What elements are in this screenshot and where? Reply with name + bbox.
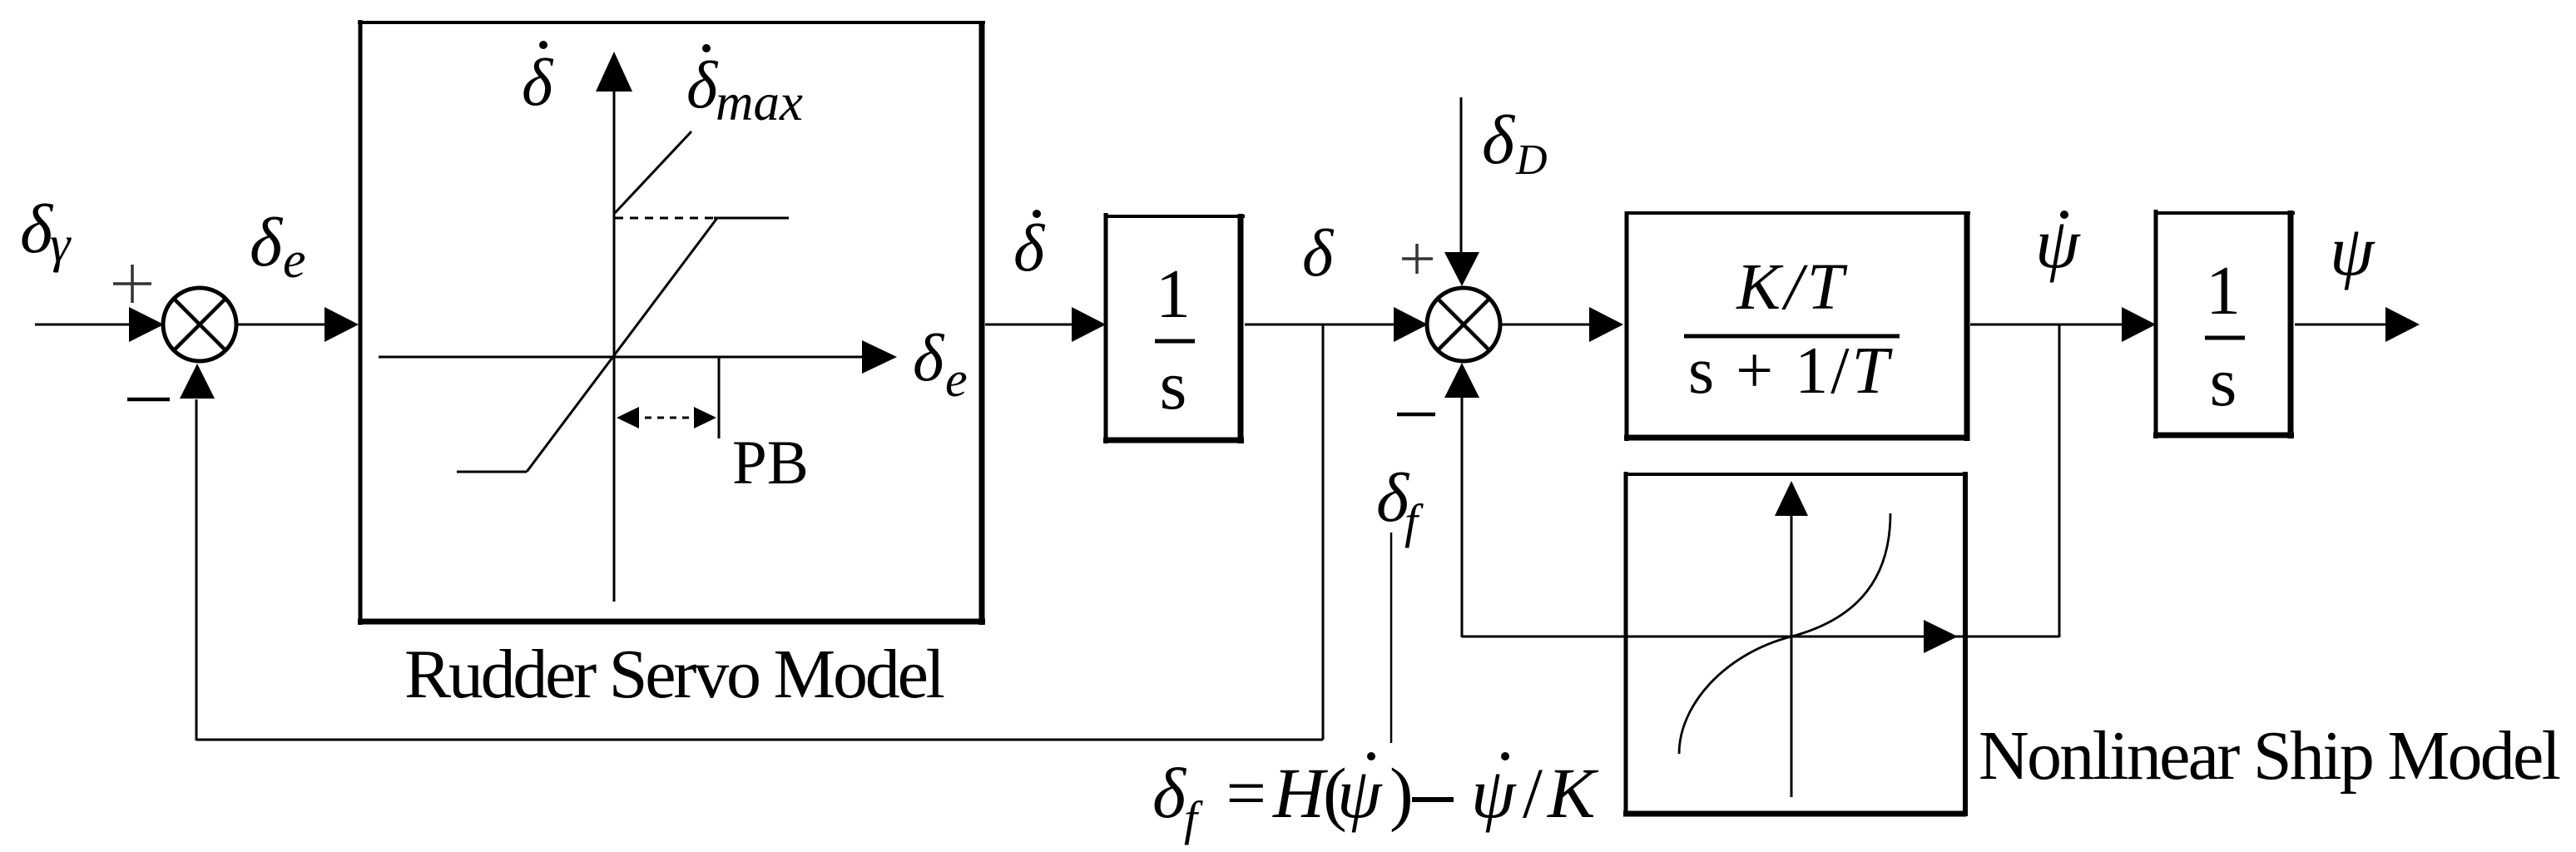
svg-text:1: 1 bbox=[2206, 252, 2241, 329]
wire output psi bbox=[2295, 307, 2420, 342]
node delta_D label bbox=[1482, 102, 1548, 184]
minus sign at S1 bbox=[127, 398, 170, 402]
svg-text:ψ: ψ bbox=[1337, 753, 1383, 833]
leader line delta_f to equation bbox=[1390, 532, 1393, 743]
wire feedback branch from delta node bbox=[1322, 324, 1325, 740]
dashed line at saturation level bbox=[615, 217, 714, 220]
label delta-dot axis bbox=[522, 41, 554, 120]
lower saturation segment bbox=[457, 471, 527, 473]
svg-text:K/T: K/T bbox=[1736, 251, 1848, 324]
block integrator U2 1/s bbox=[2153, 210, 2295, 438]
svg-text:δ: δ bbox=[913, 322, 945, 395]
equation delta_f = H(psi-dot) - psi-dot/K bbox=[1152, 752, 1599, 845]
svg-text:s: s bbox=[1160, 347, 1187, 424]
label delta_e axis bbox=[913, 322, 968, 407]
svg-text:max: max bbox=[716, 73, 803, 131]
label K/T fraction bbox=[1684, 251, 1900, 408]
block integrator U1 1/s bbox=[1103, 213, 1245, 443]
block nonlinear ship model box bbox=[1623, 472, 1967, 816]
label delta-dot-max bbox=[686, 44, 803, 131]
summing junction S1 bbox=[163, 288, 236, 361]
svg-text:e: e bbox=[283, 232, 306, 289]
svg-text:δ: δ bbox=[686, 49, 719, 122]
svg-text:δ: δ bbox=[250, 204, 284, 281]
svg-text:D: D bbox=[1515, 136, 1548, 184]
svg-text:δ: δ bbox=[1302, 217, 1335, 290]
node psi-dot label bbox=[2035, 203, 2081, 283]
svg-text:s + 1/T: s + 1/T bbox=[1688, 334, 1893, 408]
block rudder servo model box bbox=[358, 20, 985, 625]
upper diagonal continuation bbox=[615, 131, 691, 213]
svg-text:δ: δ bbox=[1482, 102, 1516, 179]
wire delta_f input to S2 bbox=[1444, 363, 1479, 637]
svg-text:H: H bbox=[1272, 753, 1328, 833]
graph x-axis delta_e bbox=[379, 340, 897, 374]
nonlinear S-curve H bbox=[1679, 513, 1890, 754]
svg-text:Rudder Servo Model: Rudder Servo Model bbox=[404, 636, 945, 713]
svg-text:f: f bbox=[1404, 494, 1424, 548]
svg-text:Nonlinear Ship Model: Nonlinear Ship Model bbox=[1979, 717, 2561, 795]
nonlinear graph y-axis bbox=[1775, 481, 1808, 797]
svg-text:=: = bbox=[1221, 753, 1270, 833]
svg-text:ψ: ψ bbox=[2330, 211, 2375, 290]
graph y-axis delta-dot bbox=[596, 52, 632, 602]
svg-text:PB: PB bbox=[732, 428, 809, 498]
plus sign at S1 bbox=[113, 265, 151, 303]
node delta_gamma label bbox=[20, 191, 72, 273]
plus sign at S2 bbox=[1402, 244, 1433, 274]
svg-text:ψ: ψ bbox=[1471, 753, 1517, 833]
svg-text:e: e bbox=[945, 352, 968, 407]
node delta-dot label bbox=[1013, 210, 1046, 285]
wire rudder box to integrator1 (delta-dot) bbox=[985, 307, 1106, 342]
svg-text:δ: δ bbox=[1013, 212, 1046, 285]
wire delta_D input bbox=[1444, 97, 1479, 286]
svg-text:δ: δ bbox=[20, 191, 54, 268]
svg-text:1: 1 bbox=[1156, 255, 1191, 333]
node delta_e label bbox=[250, 204, 306, 289]
PB tick mark bbox=[718, 357, 721, 438]
PB double arrow bbox=[617, 407, 716, 428]
label 1/s in U1 bbox=[1155, 255, 1195, 424]
wire input delta_gamma bbox=[35, 307, 164, 342]
svg-text:): ) bbox=[1390, 753, 1414, 833]
svg-text:ψ: ψ bbox=[2035, 203, 2081, 283]
saturation top segment bbox=[714, 217, 789, 220]
minus sign at S2 bbox=[1397, 413, 1435, 417]
wire integrator1 to S2 (delta) bbox=[1245, 307, 1428, 342]
svg-text:K: K bbox=[1546, 753, 1599, 833]
wire psi-dot feedback run through nonlinear box bbox=[1462, 636, 2059, 638]
wire feedback bottom run bbox=[196, 739, 1323, 741]
main diagonal of saturation curve bbox=[527, 218, 717, 472]
block ship transfer function K/T over s+1/T bbox=[1624, 211, 1970, 441]
label 1/s in U2 bbox=[2205, 252, 2245, 421]
wire feedback rise to S1 bbox=[180, 364, 215, 741]
wire ship block to integrator2 (psi-dot) bbox=[1970, 307, 2156, 342]
svg-text:f: f bbox=[1184, 791, 1203, 845]
wire S2 to ship block bbox=[1500, 307, 1623, 342]
svg-text:δ: δ bbox=[1152, 753, 1187, 833]
svg-text:δ: δ bbox=[522, 47, 554, 120]
svg-text:s: s bbox=[2210, 344, 2237, 421]
nonlinear graph x-axis arrow bbox=[1924, 620, 1958, 653]
node delta_f label bbox=[1376, 459, 1424, 548]
summing junction S2 bbox=[1427, 288, 1500, 361]
wire psi-dot branch down bbox=[2058, 324, 2061, 637]
svg-text:γ: γ bbox=[50, 216, 72, 273]
svg-text:/: / bbox=[1523, 753, 1543, 833]
wire S1 to rudder box (delta_e) bbox=[236, 307, 359, 342]
